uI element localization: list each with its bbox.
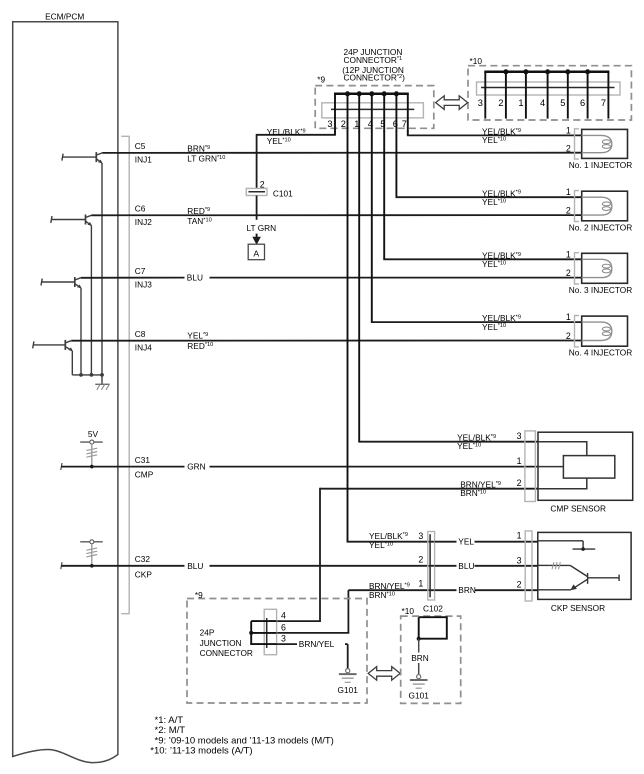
svg-text:24P: 24P (200, 628, 215, 638)
svg-text:2: 2 (341, 119, 346, 129)
svg-text:6: 6 (281, 623, 286, 633)
svg-text:3: 3 (281, 634, 286, 644)
pin 4 stub (251, 620, 276, 622)
wire C101 to A (LT GRN) (256, 196, 258, 220)
injector box No. 2 INJECTOR (582, 191, 628, 221)
svg-text:INJ4: INJ4 (135, 342, 152, 352)
ECM/PCM box (13, 22, 118, 763)
svg-text:*9: *9 (317, 75, 325, 85)
wire pin 3 to G101 (BRN/YEL) (277, 643, 297, 645)
wire junction pin to No. 2 INJECTOR pin 1 (YEL/BLK) (395, 131, 397, 197)
svg-text:BRN: BRN (411, 653, 429, 663)
equivalence arrow between bottom *9 and *10 (368, 667, 400, 681)
CKP connector bracket (525, 531, 532, 601)
injector box No. 3 INJECTOR (582, 253, 628, 283)
transistor Q4 (INJ4 driver) (33, 340, 73, 375)
dashed box *9 (top junction connector) (315, 86, 434, 129)
svg-text:1: 1 (566, 125, 571, 135)
svg-text:4: 4 (540, 98, 545, 108)
wire bridge to G101 (BRN) (418, 639, 420, 653)
svg-text:1: 1 (517, 456, 522, 466)
wire CMP pin 2 to bottom junction pin 4 (BRN/YEL) (320, 488, 538, 490)
wire C102 to CKP pin 1 (YEL) (435, 541, 457, 543)
svg-text:GRN: GRN (187, 462, 205, 472)
emitter common rail (72, 374, 103, 376)
junction connector *9 gray body (322, 103, 424, 118)
wire C102 to CKP pin 3 (BLU) (435, 565, 457, 567)
svg-text:4: 4 (368, 119, 373, 129)
CMP sensor internal element (538, 442, 587, 489)
junction *9 bus bar (334, 93, 409, 96)
svg-text:BRN/YEL: BRN/YEL (299, 639, 335, 649)
svg-text:C102: C102 (423, 603, 443, 613)
svg-text:*10: ’11-13 models (A/T): *10: ’11-13 models (A/T) (150, 746, 252, 757)
injector box No. 4 INJECTOR (582, 316, 628, 346)
svg-text:2: 2 (566, 143, 571, 153)
wire INJ1 output (BRN / LT GRN) (102, 152, 582, 154)
svg-text:C5: C5 (135, 141, 146, 151)
wire *9 pin 3 to C101 (YEL/BLK) (334, 131, 336, 135)
svg-text:1: 1 (517, 530, 522, 540)
svg-text:INJ1: INJ1 (135, 155, 152, 165)
wire C102 pin 1 to bottom junction pin 6 (BRN/YEL) (348, 589, 434, 591)
svg-text:No. 4 INJECTOR: No. 4 INJECTOR (569, 348, 632, 358)
dashed box *10 (bottom, A/T models) (401, 616, 461, 703)
dot CKP collector junction (581, 547, 585, 551)
wire ECM C31 to CMP pin 1 (GRN) (61, 463, 62, 470)
junction *10 pin stubs (484, 72, 486, 119)
pin 6 stub (250, 632, 276, 634)
svg-text:No. 2 INJECTOR: No. 2 INJECTOR (569, 222, 632, 232)
transistor Q1 (INJ1 driver) (62, 152, 103, 375)
svg-text:2: 2 (498, 98, 503, 108)
CKP sensor box (538, 532, 631, 599)
svg-text:5V: 5V (88, 429, 99, 439)
svg-text:CKP SENSOR: CKP SENSOR (551, 603, 605, 613)
svg-text:C7: C7 (135, 266, 146, 276)
svg-text:C8: C8 (135, 329, 146, 339)
svg-text:7: 7 (601, 98, 606, 108)
svg-text:CONNECTOR*2): CONNECTOR*2) (344, 73, 406, 83)
rail junction dots (79, 373, 83, 377)
junction connector *9 internal bar (331, 108, 414, 110)
svg-text:CONNECTOR: CONNECTOR (200, 648, 253, 658)
ground G101 (right) (417, 675, 421, 679)
CKP choke marks (552, 562, 554, 569)
injector connector bracket (No. 1 INJECTOR) (575, 129, 580, 159)
CKP internals (538, 541, 619, 590)
ECM connector bracket (121, 136, 129, 613)
svg-text:1: 1 (566, 312, 571, 322)
arrow into connector A (256, 234, 258, 239)
svg-text:BLU: BLU (458, 561, 474, 571)
wire INJ3 output (BLU) (81, 277, 185, 279)
svg-text:1: 1 (418, 579, 423, 589)
ground G101 (left) (346, 669, 350, 673)
svg-text:LT GRN: LT GRN (247, 223, 277, 233)
svg-text:BLU: BLU (187, 272, 203, 282)
injector connector bracket (No. 3 INJECTOR) (575, 253, 580, 284)
svg-text:3: 3 (418, 531, 423, 541)
wire ECM C32 to C102 pin 2 (BLU) (61, 562, 62, 569)
svg-text:CKP: CKP (135, 570, 153, 580)
pin 3 stub (250, 643, 276, 645)
svg-text:1: 1 (354, 119, 359, 129)
wire *9 pin 2 to C102 pin 3 (YEL/BLK) (347, 131, 349, 542)
svg-text:G101: G101 (409, 691, 430, 701)
injector coil symbol (No. 1 INJECTOR) (582, 135, 612, 152)
injector connector bracket (No. 4 INJECTOR) (575, 316, 580, 347)
svg-text:5: 5 (560, 98, 565, 108)
svg-text:CMP SENSOR: CMP SENSOR (550, 503, 606, 513)
injector coil symbol (No. 2 INJECTOR) (582, 197, 612, 215)
svg-text:No. 3 INJECTOR: No. 3 INJECTOR (569, 285, 632, 295)
svg-text:2: 2 (566, 206, 571, 216)
svg-text:ECM/PCM: ECM/PCM (45, 11, 84, 21)
transistor Q2 (INJ2 driver) (51, 215, 92, 375)
wire junction pin to No. 1 INJECTOR pin 1 (YEL/BLK) (407, 131, 409, 135)
svg-text:*10: *10 (470, 56, 483, 66)
CMP sensor box (538, 432, 633, 500)
svg-text:2: 2 (517, 478, 522, 488)
svg-text:3: 3 (478, 98, 483, 108)
connector C102 (428, 532, 435, 601)
svg-text:2: 2 (566, 331, 571, 341)
svg-text:C101: C101 (273, 189, 293, 199)
connector A box (248, 244, 264, 260)
svg-text:JUNCTION: JUNCTION (200, 638, 242, 648)
svg-text:3: 3 (517, 555, 522, 565)
injector connector bracket (No. 2 INJECTOR) (575, 191, 580, 222)
svg-text:CONNECTOR*1: CONNECTOR*1 (344, 55, 403, 65)
equivalence arrow between *9 and *10 (436, 96, 468, 110)
svg-text:A: A (253, 249, 259, 259)
svg-text:6: 6 (580, 98, 585, 108)
svg-text:CMP: CMP (135, 470, 154, 480)
svg-text:BLU: BLU (187, 561, 203, 571)
svg-text:5: 5 (380, 119, 385, 129)
injector coil symbol (No. 4 INJECTOR) (582, 322, 612, 340)
wire INJ2 output (RED / TAN) (91, 214, 581, 216)
connector C101 (246, 188, 267, 195)
bottom junction connector bracket (264, 609, 276, 654)
junction *10 bus bar (484, 71, 609, 74)
svg-text:3: 3 (517, 431, 522, 441)
svg-text:2: 2 (566, 268, 571, 278)
svg-text:1: 1 (566, 249, 571, 259)
pull-up at CKP input (80, 541, 103, 543)
svg-text:*9: *9 (195, 590, 203, 600)
svg-text:4: 4 (281, 611, 286, 621)
svg-text:7: 7 (402, 119, 407, 129)
wire INJ4 output (YEL / RED) (71, 340, 582, 342)
junction connector *10 gray body (477, 82, 621, 95)
chassis ground inside ECM (101, 375, 103, 384)
svg-text:G101: G101 (338, 685, 359, 695)
injector box No. 1 INJECTOR (582, 129, 628, 158)
svg-text:No. 1 INJECTOR: No. 1 INJECTOR (569, 160, 632, 170)
svg-text:YEL: YEL (458, 537, 474, 547)
svg-text:C6: C6 (135, 204, 146, 214)
dashed box *10 (top junction connector A/T) (468, 66, 631, 120)
svg-text:BRN: BRN (458, 585, 476, 595)
svg-text:2: 2 (418, 555, 423, 565)
svg-text:1: 1 (518, 98, 523, 108)
junction bridge (bottom *10) (419, 617, 447, 639)
svg-text:3: 3 (327, 119, 332, 129)
svg-text:C32: C32 (135, 554, 151, 564)
dashed box *9 (bottom junction connector) (187, 599, 367, 704)
wire junction pin to No. 3 INJECTOR pin 1 (YEL/BLK) (383, 131, 385, 259)
bottom junction bridge (250, 621, 252, 644)
svg-text:C31: C31 (135, 455, 151, 465)
wire junction pin to No. 4 INJECTOR pin 1 (YEL/BLK) (371, 131, 373, 322)
svg-text:INJ3: INJ3 (135, 280, 152, 290)
junction connector *10 internal bar (481, 87, 615, 89)
injector coil symbol (No. 3 INJECTOR) (582, 259, 612, 277)
CMP connector bracket (525, 431, 536, 502)
wire C102 to CKP pin 2 (BRN) (435, 589, 457, 591)
svg-text:6: 6 (393, 119, 398, 129)
transistor Q3 (INJ3 driver) (41, 277, 81, 375)
wire *9 pin 1 to CMP pin 3 (YEL/BLK) (358, 131, 360, 442)
svg-text:2: 2 (517, 580, 522, 590)
svg-text:1: 1 (566, 187, 571, 197)
svg-text:*10: *10 (402, 606, 415, 616)
junction *9 pin stubs (334, 94, 336, 132)
junction *10 bus dots (503, 69, 508, 74)
svg-text:INJ2: INJ2 (135, 217, 152, 227)
junction *9 bus dots (345, 91, 350, 96)
